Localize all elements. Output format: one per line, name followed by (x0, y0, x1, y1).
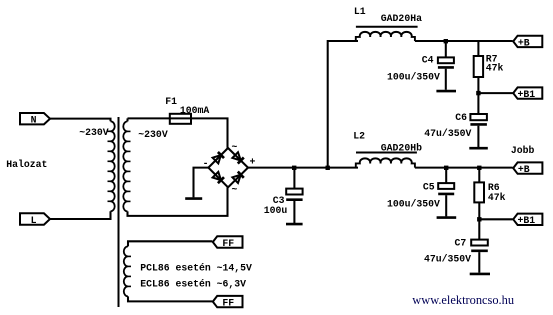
node +B1 bottom (477, 217, 481, 221)
svg-text:~: ~ (232, 184, 238, 195)
transformer primary winding (108, 121, 115, 211)
bridge diode bottom-right (anode bottom, cathode right) (232, 172, 243, 183)
svg-text:L1: L1 (354, 6, 366, 17)
resistor R6 (474, 168, 484, 220)
wire heater bottom to FF (128, 296, 212, 301)
node main rail / C3 (292, 166, 296, 170)
transformer heater winding (124, 246, 131, 296)
capacitor C6 (470, 93, 487, 147)
svg-text:+B: +B (518, 37, 530, 48)
svg-text:~230V: ~230V (138, 129, 168, 140)
svg-text:~230V: ~230V (79, 127, 109, 138)
svg-text:47u/350V: 47u/350V (424, 254, 471, 265)
ground C6 (469, 147, 488, 150)
transformer secondary HV winding (123, 121, 130, 211)
node +B1 top (476, 91, 480, 95)
svg-text:100mA: 100mA (180, 105, 210, 116)
wire to +B1 top terminal (478, 92, 512, 94)
svg-text:+B1: +B1 (518, 89, 536, 100)
terminal FF top (213, 236, 243, 249)
svg-text:+B: +B (518, 164, 530, 175)
svg-text:47k: 47k (486, 62, 504, 73)
node top rail / C4 (444, 39, 448, 43)
terminal FF bottom (213, 296, 243, 309)
svg-text:100u/350V: 100u/350V (387, 199, 440, 210)
terminal +B1 top (513, 87, 542, 100)
ground C3 (286, 223, 303, 226)
svg-text:F1: F1 (165, 96, 177, 107)
node main rail / R6 (477, 166, 481, 170)
terminal L (20, 213, 50, 226)
node main rail / L1 branch (326, 166, 330, 170)
capacitor C3 (286, 168, 302, 223)
ground bridge (185, 197, 202, 200)
wire secondary top to fuse (128, 118, 228, 147)
svg-text:~: ~ (232, 142, 238, 153)
svg-text:+: + (250, 157, 256, 168)
wire L to primary bottom (50, 211, 111, 219)
svg-text:C7: C7 (455, 237, 467, 248)
bridge diode top-right (anode top, cathode right) (232, 152, 243, 163)
svg-text:L: L (31, 215, 37, 226)
svg-text:C4: C4 (422, 55, 434, 66)
svg-text:47k: 47k (488, 192, 506, 203)
terminal N (20, 113, 50, 126)
wire main rail with inductor L2 (248, 167, 358, 169)
svg-text:ECL86 esetén ~6,3V: ECL86 esetén ~6,3V (140, 279, 246, 290)
svg-text:FF: FF (222, 238, 234, 249)
transformer core (118, 117, 120, 307)
wire secondary bottom to bridge (128, 187, 228, 216)
svg-text:FF: FF (222, 298, 234, 309)
bridge diode bottom-left (anode left, cathode bottom) (213, 172, 224, 183)
ground C5 (437, 216, 457, 219)
svg-text:Jobb: Jobb (511, 145, 535, 156)
wire to +B1 bottom terminal (479, 218, 512, 220)
inductor L1 coil (356, 32, 415, 41)
terminal +B bottom (513, 162, 542, 175)
svg-text:www.elektroncso.hu: www.elektroncso.hu (412, 293, 514, 307)
wire N to primary top (50, 119, 111, 122)
bridge rectifier edges (208, 148, 248, 187)
svg-text:+B1: +B1 (518, 215, 536, 226)
svg-text:Halozat: Halozat (6, 159, 47, 170)
capacitor C4 (438, 41, 454, 90)
svg-text:GAD20Ha: GAD20Ha (381, 13, 422, 24)
svg-text:100u/350V: 100u/350V (387, 72, 440, 83)
terminal +B top (513, 36, 542, 49)
node main rail / C5 (444, 166, 448, 170)
ground C4 (436, 90, 456, 93)
resistor R7 (474, 41, 483, 93)
capacitor C7 (471, 219, 488, 272)
capacitor C5 (438, 168, 454, 217)
svg-text:N: N (31, 115, 37, 126)
svg-text:L2: L2 (353, 130, 365, 141)
ground C7 (470, 273, 490, 276)
wire branch up to L1 (328, 41, 358, 168)
fuse F1 (170, 114, 191, 124)
svg-text:PCL86 esetén ~14,5V: PCL86 esetén ~14,5V (140, 262, 252, 273)
terminal +B1 bottom (513, 214, 542, 227)
svg-text:47u/350V: 47u/350V (424, 128, 471, 139)
wire bridge minus to ground (194, 168, 209, 198)
svg-text:100u: 100u (264, 205, 288, 216)
svg-text:C5: C5 (423, 182, 435, 193)
wire heater top to FF (128, 241, 212, 246)
bridge diode top-left (anode left, cathode top) (213, 152, 224, 163)
inductor L2 coil (356, 158, 415, 167)
svg-text:C6: C6 (455, 112, 467, 123)
